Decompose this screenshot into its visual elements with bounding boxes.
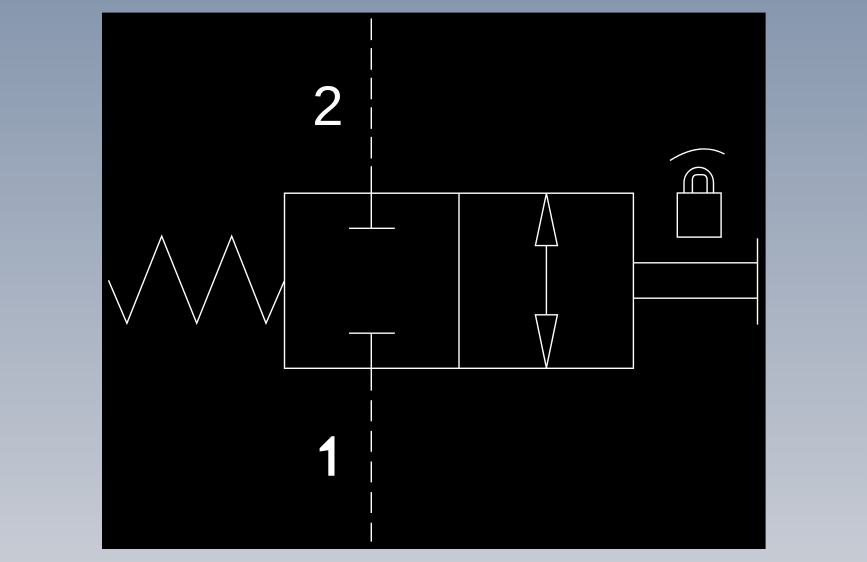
svg-text:2: 2 [312, 74, 343, 137]
